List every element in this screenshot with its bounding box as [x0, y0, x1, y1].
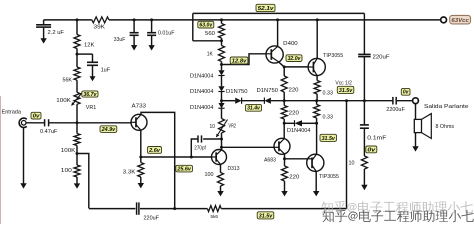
- svg-text:0.33: 0.33: [323, 90, 334, 96]
- svg-text:220uF: 220uF: [144, 216, 160, 222]
- svg-text:0.47uF: 0.47uF: [40, 129, 58, 135]
- svg-text:2.6v: 2.6v: [148, 148, 161, 154]
- svg-text:D1N750: D1N750: [226, 89, 248, 95]
- svg-text:39K: 39K: [94, 25, 106, 31]
- svg-text:36.7v: 36.7v: [83, 92, 97, 98]
- svg-text:D313: D313: [228, 166, 240, 172]
- svg-text:0v: 0v: [367, 147, 376, 153]
- svg-text:25.6v: 25.6v: [176, 167, 191, 173]
- svg-text:24.9v: 24.9v: [101, 127, 117, 133]
- svg-text:560: 560: [205, 31, 215, 37]
- svg-text:100K: 100K: [56, 98, 71, 104]
- svg-text:0v: 0v: [403, 90, 409, 96]
- svg-text:220: 220: [289, 87, 299, 93]
- svg-text:D1N4004: D1N4004: [190, 73, 214, 79]
- svg-text:D1N750: D1N750: [257, 88, 279, 94]
- svg-text:TIP3055: TIP3055: [323, 53, 343, 59]
- svg-text:0v: 0v: [33, 114, 41, 120]
- svg-text:2.2 uF: 2.2 uF: [48, 30, 65, 36]
- svg-text:2200uF: 2200uF: [386, 107, 405, 113]
- svg-text:0.33: 0.33: [323, 114, 334, 120]
- svg-text:1uF: 1uF: [101, 67, 111, 73]
- svg-text:33uF: 33uF: [114, 37, 126, 43]
- svg-text:31.5v: 31.5v: [322, 136, 336, 142]
- svg-text:10: 10: [349, 160, 355, 166]
- svg-text:31.4v: 31.4v: [247, 106, 261, 112]
- svg-text:270pf: 270pf: [194, 146, 206, 152]
- svg-text:A683: A683: [264, 158, 276, 164]
- svg-text:VR1: VR1: [86, 105, 97, 111]
- svg-text:32.0v: 32.0v: [288, 56, 302, 62]
- svg-text:100K: 100K: [61, 148, 76, 154]
- svg-text:63Vcc: 63Vcc: [451, 18, 469, 24]
- svg-text:220: 220: [289, 111, 299, 117]
- svg-text:Salida Parlante: Salida Parlante: [424, 104, 469, 110]
- svg-text:0.01uF: 0.01uF: [158, 31, 175, 37]
- svg-text:Vcc 1/2: Vcc 1/2: [335, 80, 352, 86]
- svg-text:12K: 12K: [84, 42, 95, 48]
- svg-text:5k6: 5k6: [211, 214, 219, 219]
- svg-text:D400: D400: [283, 41, 298, 47]
- svg-text:D1N4004: D1N4004: [190, 89, 214, 95]
- svg-text:3.3K: 3.3K: [123, 170, 136, 176]
- svg-text:1K: 1K: [207, 51, 214, 57]
- svg-text:31.5v: 31.5v: [259, 213, 273, 219]
- svg-text:Entrada: Entrada: [2, 109, 22, 115]
- svg-text:220uF: 220uF: [373, 55, 390, 61]
- svg-text:31.5v: 31.5v: [339, 88, 353, 94]
- svg-text:D1N4004: D1N4004: [190, 105, 214, 111]
- svg-text:0.1mF: 0.1mF: [367, 135, 386, 141]
- svg-text:52.1v: 52.1v: [258, 6, 275, 12]
- svg-text:10: 10: [210, 124, 216, 130]
- svg-text:220: 220: [289, 175, 299, 181]
- svg-text:TIP3055: TIP3055: [319, 174, 339, 180]
- svg-text:D1N4004: D1N4004: [287, 128, 311, 134]
- svg-text:100: 100: [205, 172, 214, 178]
- svg-text:63.0v: 63.0v: [199, 23, 213, 29]
- svg-text:100: 100: [61, 168, 72, 174]
- svg-text:8 Ohms: 8 Ohms: [436, 124, 455, 130]
- svg-text:VR2: VR2: [229, 124, 237, 130]
- svg-text:12.8v: 12.8v: [232, 58, 248, 64]
- svg-text:56K: 56K: [63, 77, 73, 83]
- svg-text:A733: A733: [132, 103, 147, 109]
